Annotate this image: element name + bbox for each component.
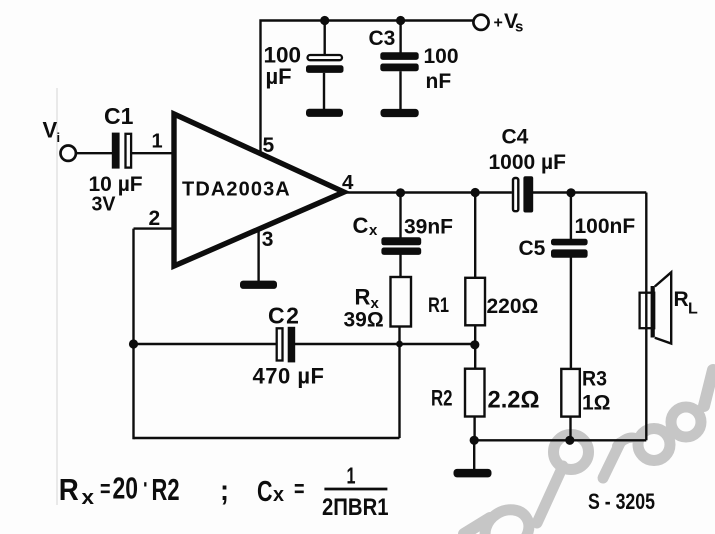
wire C5 drop bbox=[570, 193, 572, 240]
svg-text:L: L bbox=[688, 301, 698, 318]
svg-text:R2: R2 bbox=[152, 473, 180, 507]
ground below C3 bbox=[381, 109, 419, 117]
capacitor 100uF electrolytic bbox=[308, 55, 343, 60]
ground below pin 3 bbox=[240, 281, 277, 289]
junction dot output Cx bbox=[396, 188, 405, 197]
svg-text:5: 5 bbox=[263, 134, 275, 157]
svg-text:R: R bbox=[59, 473, 79, 507]
wire output after C4 bbox=[533, 191, 646, 193]
junction dot Rx bottom cross bbox=[396, 341, 403, 348]
svg-text:S - 3205: S - 3205 bbox=[588, 489, 655, 514]
svg-text:C: C bbox=[257, 476, 273, 508]
svg-text:x: x bbox=[273, 484, 284, 506]
svg-text:;: ; bbox=[220, 475, 229, 507]
svg-text:+: + bbox=[494, 15, 503, 32]
svg-text:R2: R2 bbox=[431, 386, 453, 411]
wire top rail bbox=[261, 21, 473, 156]
svg-text:3: 3 bbox=[262, 228, 274, 251]
wire R1 drop bbox=[474, 193, 476, 279]
svg-text:C: C bbox=[353, 213, 369, 238]
svg-text:R1: R1 bbox=[428, 294, 449, 317]
junction dot output C4 right bbox=[566, 188, 575, 197]
wire R1 to node bbox=[474, 325, 476, 370]
svg-text:1: 1 bbox=[347, 462, 356, 488]
wire Cx drop bbox=[399, 193, 401, 238]
capacitor C4 bbox=[513, 178, 518, 211]
resistor R1 bbox=[465, 278, 485, 326]
capacitor C1 bbox=[112, 133, 120, 169]
input terminal Vi bbox=[60, 146, 75, 161]
svg-text:µF: µF bbox=[266, 64, 292, 89]
svg-text:V: V bbox=[43, 118, 58, 143]
svg-text:39nF: 39nF bbox=[404, 216, 453, 239]
speaker horn bbox=[655, 272, 671, 343]
capacitor Cx bbox=[381, 237, 421, 245]
svg-text:=: = bbox=[294, 476, 305, 503]
resistor Rx bbox=[391, 277, 412, 327]
svg-text:39Ω: 39Ω bbox=[344, 309, 384, 332]
svg-text:R: R bbox=[355, 285, 371, 310]
resistor R3 bbox=[561, 369, 580, 417]
wire R3 bottom bbox=[569, 417, 571, 441]
svg-text:C2: C2 bbox=[268, 303, 300, 329]
scan artifact line bbox=[56, 88, 58, 505]
svg-text:4: 4 bbox=[342, 171, 354, 194]
svg-text:20: 20 bbox=[113, 472, 139, 506]
svg-text:2: 2 bbox=[149, 207, 161, 230]
svg-text:R3: R3 bbox=[582, 368, 607, 391]
wire bottom rail bbox=[134, 437, 400, 439]
svg-text:·: · bbox=[143, 469, 149, 501]
svg-text:470 µF: 470 µF bbox=[253, 364, 325, 389]
op-amp U1 triangle bbox=[174, 114, 344, 266]
svg-text:x: x bbox=[82, 487, 95, 509]
svg-text:C3: C3 bbox=[369, 27, 396, 50]
wire drop to 100uF bbox=[324, 21, 326, 55]
junction dot R1 R2 node bbox=[470, 340, 479, 349]
svg-text:3V: 3V bbox=[92, 194, 117, 216]
junction dot top 100uF bbox=[320, 16, 329, 25]
svg-text:C5: C5 bbox=[519, 237, 546, 260]
wire C1 to pin 1 bbox=[131, 152, 172, 154]
wire Cx to Rx bbox=[399, 255, 401, 279]
svg-text:=: = bbox=[100, 476, 111, 503]
capacitor C2 bbox=[277, 328, 283, 360]
junction dot feedback left bbox=[129, 339, 138, 348]
svg-text:x: x bbox=[369, 222, 378, 239]
svg-text:1000 µF: 1000 µF bbox=[489, 151, 567, 174]
wire feedback horizontal right of C2 bbox=[295, 343, 475, 345]
capacitor C5 bbox=[551, 239, 588, 246]
wire R2 ground stem bbox=[473, 440, 475, 469]
svg-text:s: s bbox=[515, 19, 523, 36]
junction dot ground bus left bbox=[470, 436, 479, 445]
svg-text:220Ω: 220Ω bbox=[487, 295, 539, 318]
junction dot top C3 bbox=[396, 16, 405, 25]
svg-text:R: R bbox=[674, 288, 689, 311]
wire input to C1 bbox=[76, 152, 113, 154]
svg-text:i: i bbox=[57, 130, 61, 145]
svg-text:C1: C1 bbox=[104, 103, 134, 129]
wire ground bus bbox=[474, 439, 646, 441]
wire left vertical feedback bbox=[132, 229, 134, 440]
svg-text:100nF: 100nF bbox=[575, 215, 636, 238]
wire right vertical to speaker bbox=[645, 193, 647, 441]
wire pin 2 bbox=[134, 227, 173, 229]
terminal +Vs bbox=[473, 15, 488, 30]
svg-text:2.2Ω: 2.2Ω bbox=[488, 387, 540, 414]
svg-text:100: 100 bbox=[424, 45, 459, 68]
wire output pin 4 bbox=[344, 191, 512, 193]
wire pin 3 stem bbox=[257, 230, 259, 282]
junction dot output R1 bbox=[471, 188, 480, 197]
junction dot ground bus R3 bbox=[565, 436, 574, 445]
ground below 100uF bbox=[306, 109, 343, 117]
speaker bar bbox=[651, 286, 655, 338]
svg-text:2ΠBR1: 2ΠBR1 bbox=[322, 494, 389, 521]
wire drop to C3 bbox=[399, 21, 401, 54]
wire R2 bottom bbox=[473, 417, 475, 441]
svg-text:TDA2003A: TDA2003A bbox=[182, 179, 291, 201]
wire C5 to R3 bbox=[570, 257, 572, 369]
resistor R2 bbox=[465, 369, 485, 417]
watermark bbox=[464, 370, 713, 534]
ground below R2 bbox=[454, 469, 492, 478]
svg-text:1: 1 bbox=[152, 131, 163, 153]
svg-text:1Ω: 1Ω bbox=[582, 392, 611, 415]
svg-text:nF: nF bbox=[426, 70, 452, 93]
svg-text:C4: C4 bbox=[502, 126, 529, 149]
wire feedback horizontal left of C2 bbox=[134, 343, 277, 345]
speaker RL body bbox=[640, 293, 655, 329]
capacitor C3 bbox=[380, 52, 418, 60]
wire Rx bottom to bottom rail bbox=[398, 326, 400, 438]
